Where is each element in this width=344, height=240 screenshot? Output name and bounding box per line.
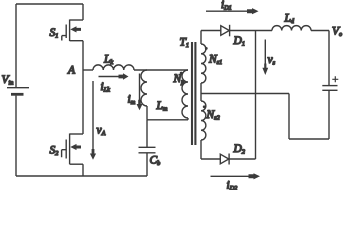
wire Ns2 to D2	[201, 158, 220, 160]
svg-text:D2: D2	[233, 143, 245, 156]
svg-text:Cb: Cb	[150, 155, 161, 168]
diode D2	[220, 154, 229, 165]
dot Np polarity	[180, 72, 183, 75]
inductor Lm	[141, 70, 147, 120]
source Vin battery	[7, 88, 29, 176]
wire D2 to cathode bus	[229, 158, 255, 160]
transistor S1	[62, 4, 83, 41]
diode D1	[221, 25, 230, 37]
wire top rail	[16, 3, 83, 5]
svg-text:Lk: Lk	[103, 54, 113, 67]
svg-text:Vin: Vin	[2, 74, 14, 87]
wire node A to Lk	[83, 69, 93, 71]
arrow vA	[90, 81, 96, 160]
wire center tap segment	[200, 83, 202, 101]
current arrow iLk	[99, 73, 129, 79]
winding Ns1	[201, 31, 206, 84]
wire Lk to primary top	[134, 69, 188, 71]
capacitor Co output	[322, 86, 337, 139]
svg-text:vA: vA	[97, 125, 106, 138]
svg-text:Vo: Vo	[332, 26, 342, 39]
inductor Ld	[272, 26, 311, 31]
svg-text:S1: S1	[50, 27, 59, 40]
plus sign output polarity	[332, 76, 338, 82]
svg-text:D1: D1	[233, 35, 245, 48]
svg-text:A: A	[67, 65, 76, 77]
wire D1 to Ld	[230, 30, 272, 32]
wire center tap to output return	[201, 94, 329, 140]
svg-text:S2: S2	[50, 145, 59, 158]
wire bottom rail	[16, 175, 147, 177]
wire switch leg (S1 source to S2 drain, node A)	[82, 41, 84, 134]
wire left vertical	[15, 4, 17, 87]
inductor Lk	[93, 65, 134, 70]
svg-text:Ld: Ld	[284, 12, 295, 25]
svg-text:im: im	[128, 94, 136, 107]
transformer T1 core	[192, 42, 195, 145]
svg-text:iD1: iD1	[221, 0, 232, 12]
svg-text:Lm: Lm	[156, 100, 168, 113]
svg-text:iLk: iLk	[101, 81, 111, 94]
wire Ld to output	[311, 31, 329, 86]
wire cathode bus D1-D2	[255, 31, 257, 160]
wire Ns1 to D1	[201, 30, 221, 32]
transistor S2	[62, 134, 83, 177]
arrow im	[137, 74, 143, 111]
svg-text:T1: T1	[180, 37, 190, 50]
arrow vs	[262, 40, 268, 76]
dot Ns1 polarity	[205, 47, 208, 50]
current arrow iD2	[211, 173, 261, 179]
capacitor Cb	[139, 120, 156, 176]
svg-text:vs: vs	[268, 54, 276, 67]
current arrow iD1	[206, 8, 259, 14]
winding Ns2	[201, 101, 206, 159]
svg-text:Ns2: Ns2	[206, 109, 220, 122]
wire bottom mid (Lm/Cb to primary bottom)	[147, 119, 188, 121]
winding Np	[182, 70, 188, 120]
svg-text:iD2: iD2	[227, 180, 238, 191]
dot Ns2 polarity	[203, 105, 206, 108]
svg-text:Ns1: Ns1	[208, 54, 222, 67]
